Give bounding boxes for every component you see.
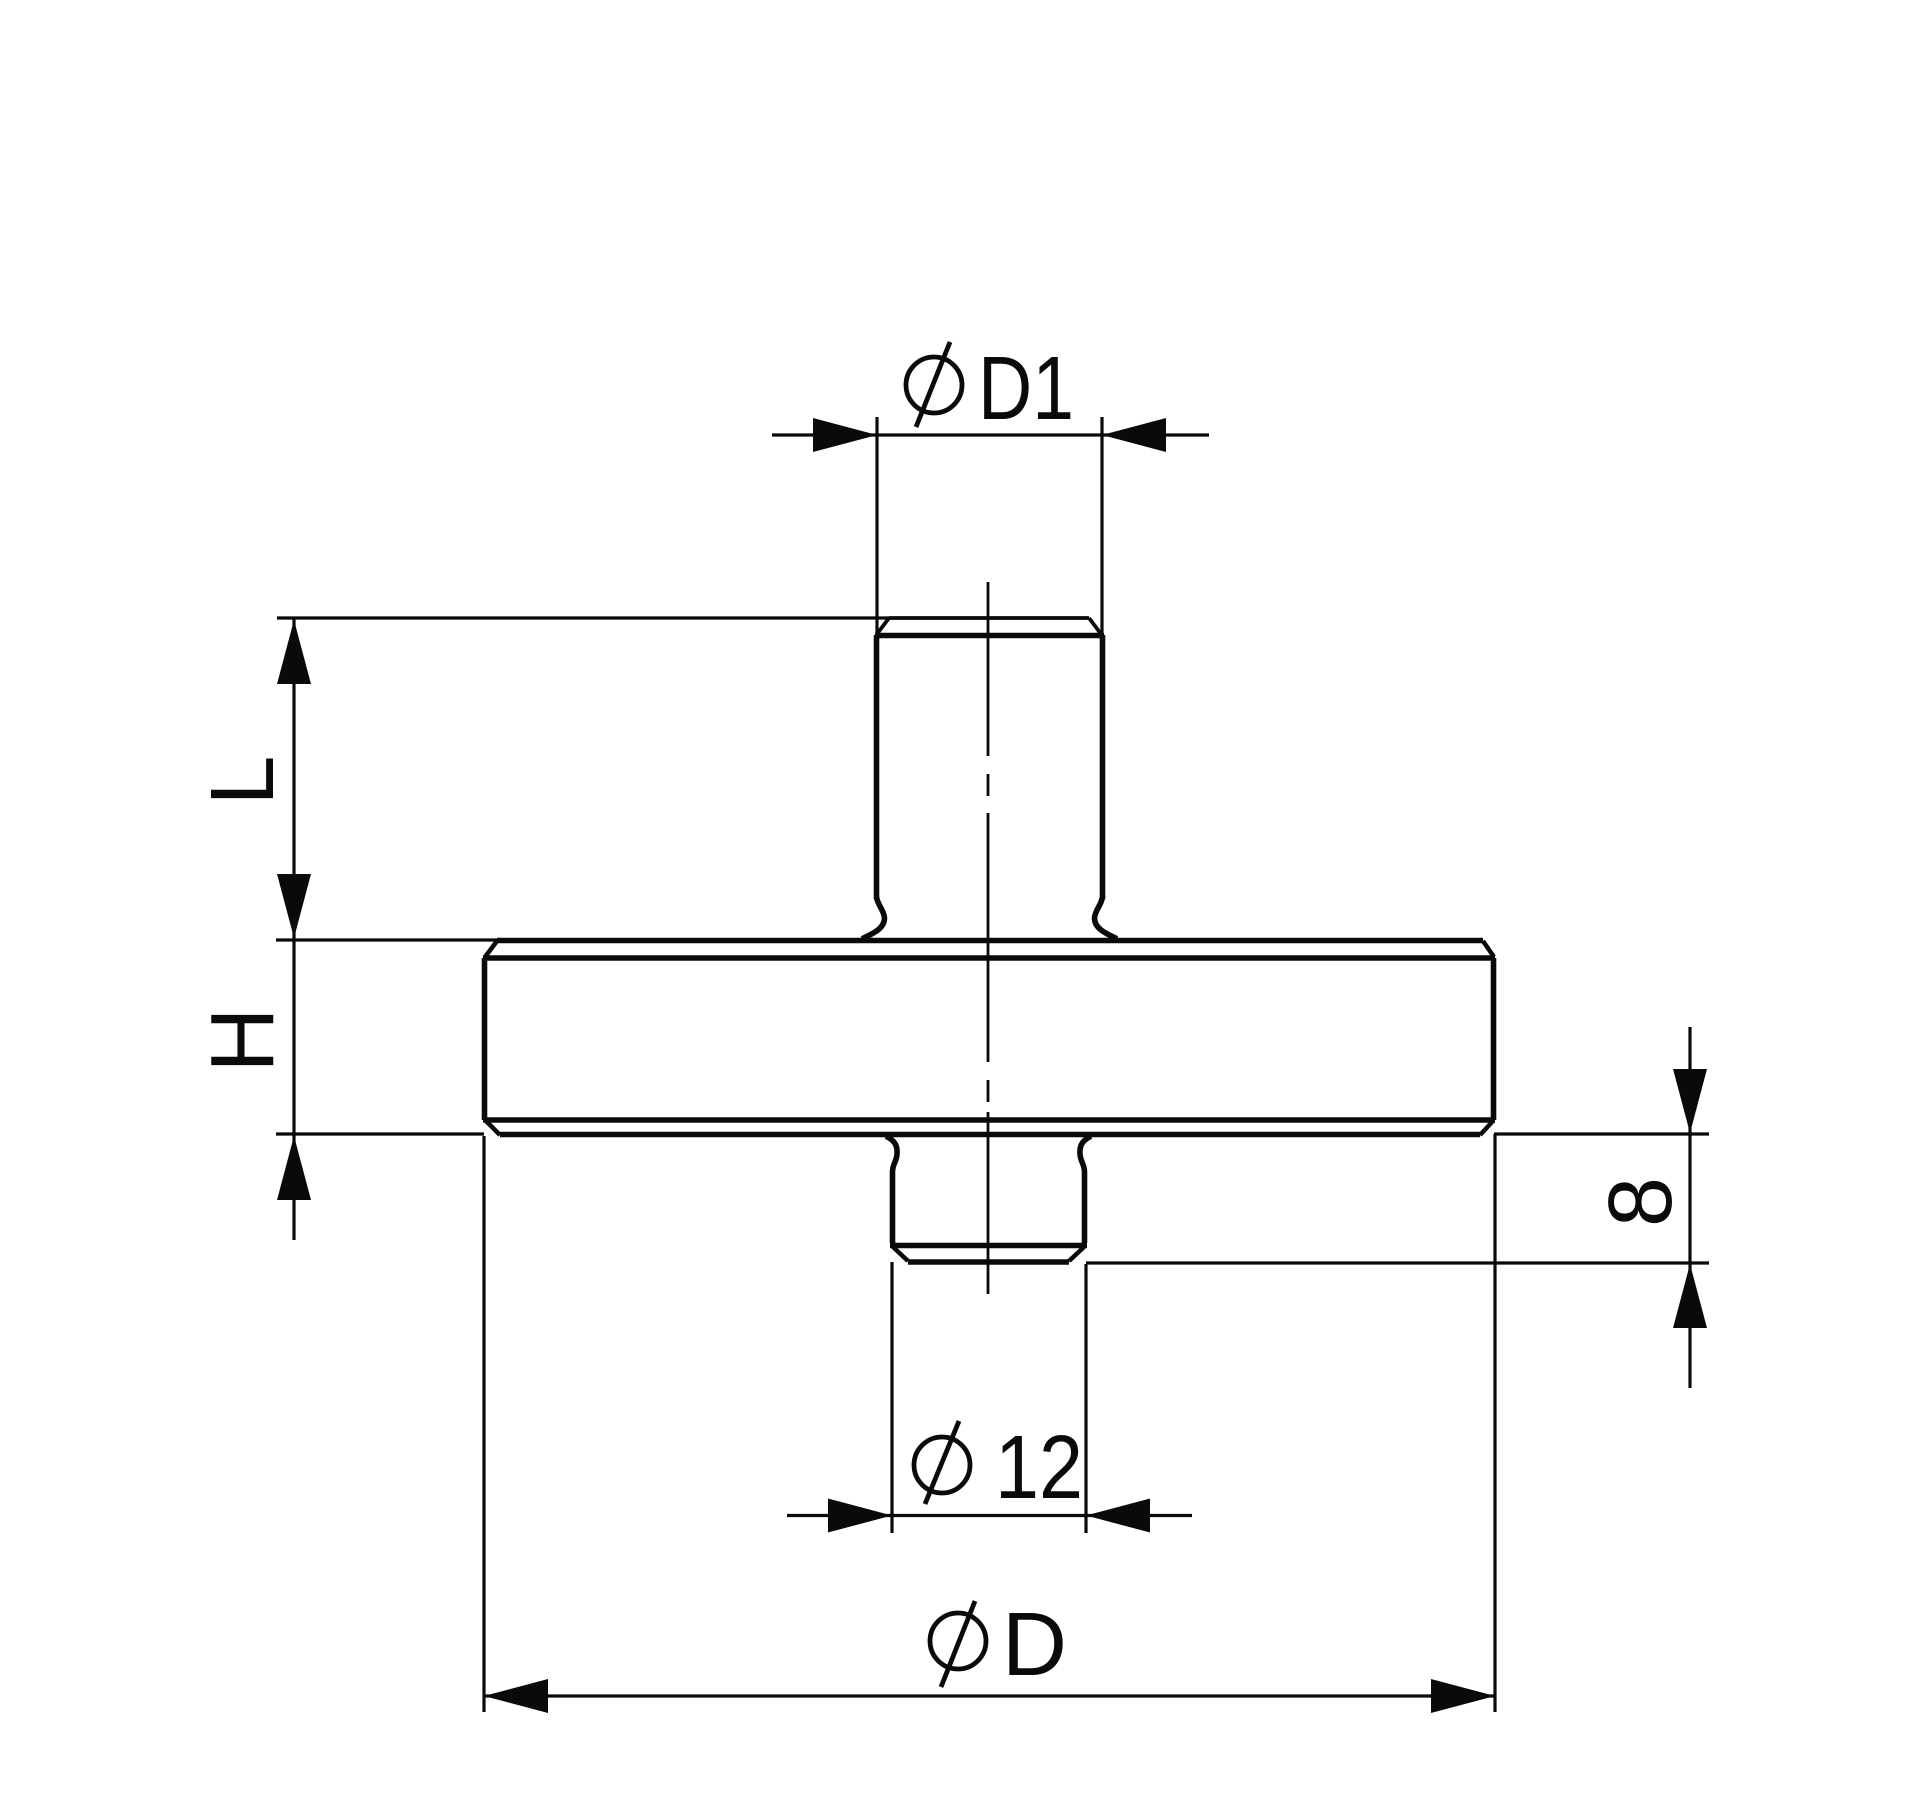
svg-text:8: 8: [1591, 1177, 1691, 1227]
svg-text:D: D: [1002, 1595, 1067, 1695]
svg-text:12: 12: [995, 1418, 1083, 1518]
svg-text:H: H: [193, 1008, 293, 1073]
svg-text:L: L: [193, 755, 293, 805]
svg-text:D1: D1: [978, 339, 1074, 439]
